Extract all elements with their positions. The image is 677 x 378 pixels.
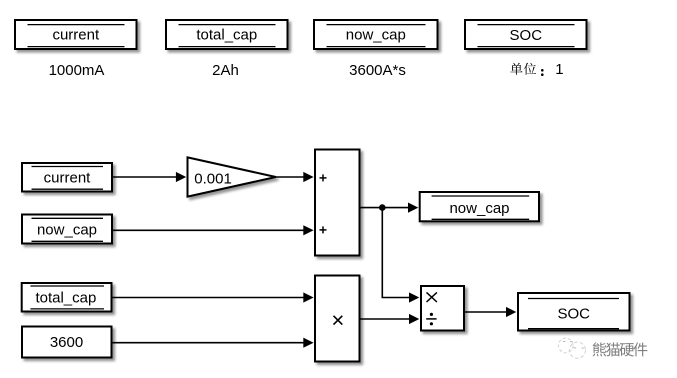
gain block 0.001 bbox=[188, 157, 276, 196]
svg-text:current: current bbox=[52, 27, 100, 44]
svg-text:current: current bbox=[44, 169, 92, 186]
goto tag block now_cap (output) bbox=[420, 192, 539, 221]
wire current to gain bbox=[113, 172, 186, 182]
goto tag block SOC (output) bbox=[518, 293, 630, 331]
sum block bbox=[315, 150, 360, 256]
wire total_cap to product input 1 bbox=[113, 292, 314, 302]
svg-text:2Ah: 2Ah bbox=[212, 62, 239, 79]
svg-text:3600A*s: 3600A*s bbox=[349, 62, 406, 79]
svg-text:total_cap: total_cap bbox=[35, 290, 96, 307]
junction node bbox=[379, 204, 386, 211]
svg-text:1: 1 bbox=[555, 61, 563, 78]
label unit 单位：1 bbox=[510, 61, 563, 78]
svg-text:SOC: SOC bbox=[557, 306, 590, 323]
svg-text:1000mA: 1000mA bbox=[49, 62, 105, 79]
watermark panda logo sketch bbox=[558, 338, 585, 358]
tag block SOC (top row) bbox=[465, 20, 587, 49]
divide block bbox=[421, 286, 464, 331]
source tag block total_cap bbox=[22, 283, 112, 312]
wire product output to divide input 2 bbox=[361, 314, 420, 324]
svg-text:now_cap: now_cap bbox=[37, 221, 97, 238]
svg-text:0.001: 0.001 bbox=[194, 170, 232, 187]
constant block 3600 bbox=[22, 327, 112, 358]
wire 3600 to product input 2 bbox=[113, 338, 314, 348]
product block bbox=[315, 276, 360, 362]
watermark text 熊猫硬件 bbox=[593, 342, 649, 357]
svg-text:now_cap: now_cap bbox=[449, 200, 509, 217]
svg-text:total_cap: total_cap bbox=[196, 27, 257, 44]
source tag block current bbox=[22, 163, 112, 192]
tag block total_cap (top row) bbox=[166, 20, 288, 49]
wire now_cap to sum input 2 bbox=[113, 225, 314, 235]
svg-text:now_cap: now_cap bbox=[346, 27, 406, 44]
source tag block now_cap bbox=[22, 215, 112, 244]
svg-text:SOC: SOC bbox=[510, 27, 543, 44]
wire sum output with junction to goto now_cap bbox=[361, 203, 419, 213]
wire branch from junction down to divide input 1 bbox=[382, 208, 419, 303]
wire divide output to SOC bbox=[465, 307, 516, 317]
svg-text:3600: 3600 bbox=[50, 334, 83, 351]
tag block current (top row) bbox=[15, 20, 137, 49]
tag block now_cap (top row) bbox=[314, 20, 438, 49]
wire gain to sum input 1 bbox=[275, 172, 314, 182]
